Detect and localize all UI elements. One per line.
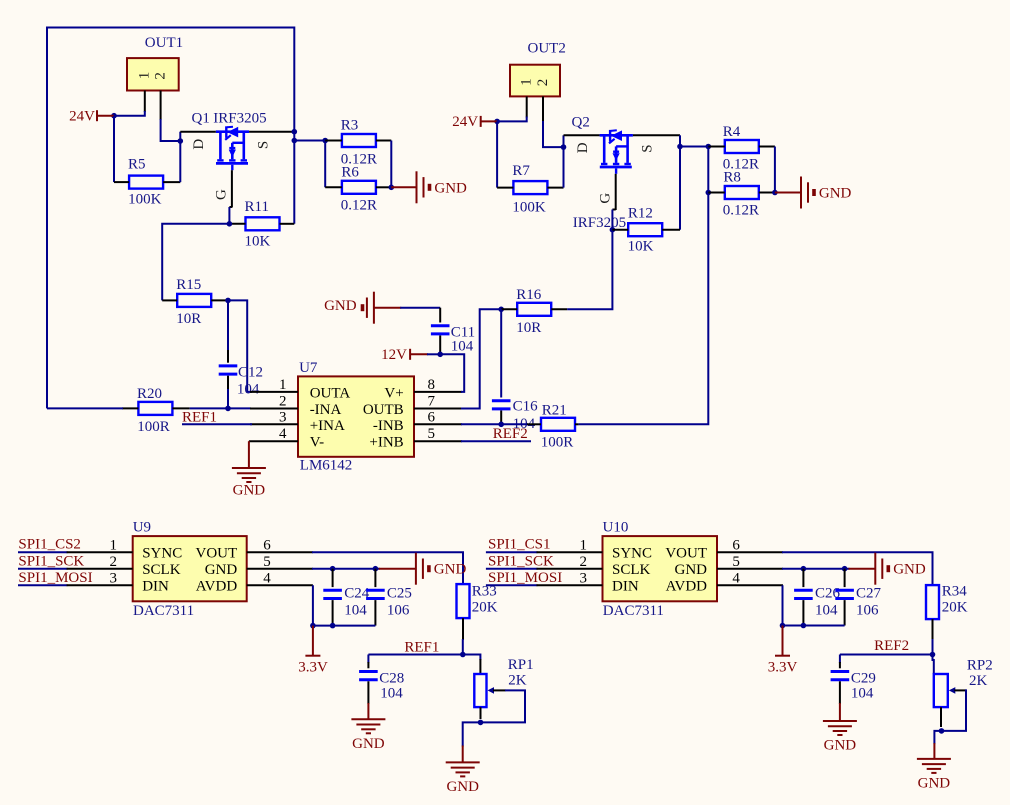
svg-text:104: 104 xyxy=(380,685,403,701)
svg-text:GND: GND xyxy=(324,298,357,314)
Q1 source pin S xyxy=(249,131,294,133)
junction RP2 bottom xyxy=(939,728,945,734)
svg-text:8: 8 xyxy=(428,377,436,393)
transistor Q1 IRF3205 xyxy=(192,110,267,170)
capacitor C29 104 xyxy=(831,655,876,705)
svg-text:-INA: -INA xyxy=(310,402,342,418)
svg-text:IRF3205: IRF3205 xyxy=(213,110,266,126)
wire R15 node down to C12 xyxy=(227,300,229,351)
svg-text:C12: C12 xyxy=(238,365,263,381)
junction gate node B xyxy=(610,227,616,233)
wire -INB pin6 to R21 xyxy=(461,423,528,425)
resistor R5 100K xyxy=(128,157,163,208)
capacitor C28 104 xyxy=(359,655,404,705)
svg-text:1: 1 xyxy=(137,72,153,80)
junction C25 top xyxy=(373,566,379,572)
junction D node B xyxy=(561,144,567,150)
wire split down to R6 xyxy=(324,141,326,188)
svg-text:104: 104 xyxy=(344,603,367,619)
power port 24V (left) xyxy=(97,115,114,117)
svg-text:VOUT: VOUT xyxy=(196,546,238,562)
OUT1 pin 2 xyxy=(160,91,162,121)
wire AVDD pin4 to 3.3V node B xyxy=(783,585,845,625)
svg-text:R8: R8 xyxy=(723,169,741,185)
wire S branch to R3/R6 split xyxy=(294,140,325,142)
svg-text:C29: C29 xyxy=(851,671,876,687)
svg-text:+INA: +INA xyxy=(310,418,345,434)
svg-text:GND: GND xyxy=(205,562,238,578)
svg-text:104: 104 xyxy=(851,685,874,701)
U9 pin 5 GND xyxy=(247,568,313,570)
junction 3.3V node xyxy=(310,623,316,629)
svg-text:C24: C24 xyxy=(344,585,370,601)
wire 24V node down to R5 xyxy=(113,116,115,182)
ground GND (R4/R8 sense) xyxy=(775,192,801,194)
U10 pin 2 SCLK xyxy=(537,568,603,570)
junction D node xyxy=(178,138,184,144)
R12 pins xyxy=(612,229,628,231)
resistor R21 100R xyxy=(541,403,575,451)
wire R20 right to U7 pin2 xyxy=(190,407,251,409)
svg-text:DIN: DIN xyxy=(612,579,639,595)
svg-text:U9: U9 xyxy=(133,519,151,535)
svg-text:104: 104 xyxy=(815,603,838,619)
svg-text:G: G xyxy=(597,193,613,204)
Q2 source pin S xyxy=(633,134,680,136)
wire output feedback loop OUT1 to R20 xyxy=(47,28,294,409)
svg-text:SPI1_MOSI: SPI1_MOSI xyxy=(18,570,92,586)
svg-text:20K: 20K xyxy=(472,599,498,615)
wire gate node to R15 xyxy=(162,224,229,301)
IC U10 DAC7311 xyxy=(603,519,718,619)
svg-text:R21: R21 xyxy=(542,403,567,419)
connector OUT1 xyxy=(127,35,183,90)
svg-text:R15: R15 xyxy=(176,277,201,293)
wire GND pin5 to caps xyxy=(312,568,380,570)
wire R5 right up to D node xyxy=(179,132,181,182)
svg-text:GND: GND xyxy=(819,186,852,202)
svg-text:OUT2: OUT2 xyxy=(528,41,566,57)
Q2 gate pin G xyxy=(615,174,617,210)
svg-text:6: 6 xyxy=(732,537,740,553)
U7 pin 3 +INA xyxy=(250,423,298,425)
junction S branch xyxy=(292,138,298,144)
junction R16 left / C16 top xyxy=(498,307,504,313)
R7 pins xyxy=(497,187,513,189)
wire 24V node down to R7 xyxy=(496,121,498,187)
ground GND (RP2) xyxy=(933,743,935,759)
svg-text:OUTB: OUTB xyxy=(363,402,404,418)
wire SPI1_CS1 xyxy=(486,551,538,553)
net REF1 wire xyxy=(368,654,462,656)
wire 12V node to V+ pin8 xyxy=(427,353,440,355)
svg-text:REF2: REF2 xyxy=(874,638,909,654)
wire RP1 bottom to GND xyxy=(463,722,481,746)
wire S branch to R4/R8 node xyxy=(680,146,708,148)
svg-text:0.12R: 0.12R xyxy=(723,203,759,219)
R3 pins xyxy=(325,140,342,142)
U7 pin 5 +INB xyxy=(414,440,462,442)
wire OUT2 pin1 to 24V node xyxy=(497,117,527,122)
U9 pin 2 SCLK xyxy=(67,568,133,570)
junction C27 top xyxy=(842,566,848,572)
wire SPI1_SCK B xyxy=(486,568,538,570)
resistor R20 100R xyxy=(137,386,172,435)
U10 pin 4 AVDD xyxy=(717,584,783,586)
resistor R3 0.12R xyxy=(341,118,377,168)
resistor R11 10K xyxy=(245,199,280,250)
RP2 bottom pin xyxy=(940,707,942,727)
svg-text:R12: R12 xyxy=(628,205,653,221)
junction R8 left xyxy=(706,190,712,196)
svg-text:SYNC: SYNC xyxy=(142,546,182,562)
wire RP1 wiper to bottom xyxy=(481,690,526,722)
U7 pin 8 V+ xyxy=(414,391,462,393)
wire OUT1 pin1 to 24V node xyxy=(114,111,145,116)
wire RP2 wiper to bottom xyxy=(942,690,967,731)
potentiometer RP2 2K xyxy=(933,655,993,708)
U9 pin 6 VOUT xyxy=(247,551,313,553)
svg-text:DAC7311: DAC7311 xyxy=(133,603,194,619)
junction gate node xyxy=(227,221,233,227)
svg-text:R11: R11 xyxy=(245,199,269,215)
svg-text:12V: 12V xyxy=(381,347,407,363)
R4 pins xyxy=(708,146,725,148)
svg-text:3: 3 xyxy=(110,570,118,586)
transistor Q2 IRF3205 xyxy=(572,114,633,231)
U7 pin 4 V- xyxy=(249,440,298,442)
svg-text:100K: 100K xyxy=(512,199,546,215)
svg-text:VOUT: VOUT xyxy=(665,546,707,562)
wire R7 right up to D node B xyxy=(563,135,565,187)
power port 3.3V (right) xyxy=(782,626,784,656)
svg-text:R16: R16 xyxy=(516,287,542,303)
OUT1 pin 1 xyxy=(144,91,146,113)
svg-text:GND: GND xyxy=(434,562,467,578)
resistor R4 0.12R xyxy=(723,124,759,173)
svg-text:10R: 10R xyxy=(516,320,541,336)
wire R16 right to Q2 gate node xyxy=(567,230,612,310)
svg-text:U7: U7 xyxy=(299,360,318,376)
svg-text:3: 3 xyxy=(580,570,588,586)
svg-text:C27: C27 xyxy=(856,585,882,601)
power port 24V (right) xyxy=(481,120,497,122)
wire source drop B xyxy=(679,135,681,229)
ground GND (U10 pin5) xyxy=(849,568,876,570)
svg-text:AVDD: AVDD xyxy=(196,579,238,595)
svg-text:S: S xyxy=(256,141,272,149)
power port 12V xyxy=(410,353,428,355)
wire SPI1_SCK xyxy=(18,568,68,570)
svg-text:V-: V- xyxy=(310,435,324,451)
R33 bottom pin xyxy=(462,618,464,640)
OUT2 pin 1 xyxy=(526,96,528,117)
junction 24V node xyxy=(111,113,117,119)
wire SPI1_MOSI xyxy=(18,584,68,586)
IC U9 DAC7311 xyxy=(133,519,247,619)
U7 pin 1 OUTA xyxy=(250,391,298,393)
svg-text:24V: 24V xyxy=(452,114,478,130)
svg-text:GND: GND xyxy=(233,483,266,499)
svg-text:GND: GND xyxy=(675,562,708,578)
wire SPI1_MOSI B xyxy=(486,584,538,586)
U10 pin 6 VOUT xyxy=(717,551,783,553)
svg-text:1: 1 xyxy=(110,537,118,553)
svg-text:SCLK: SCLK xyxy=(612,562,651,578)
ground GND on U7 pin4 xyxy=(248,441,250,468)
wire Q2 gate down to gate node B xyxy=(611,210,613,230)
connector OUT2 xyxy=(510,41,566,97)
Q1 gate pin G xyxy=(231,170,233,207)
op-amp U7 LM6142 xyxy=(298,360,414,474)
wire R4 right down to R8 right xyxy=(774,147,776,193)
R6 pins xyxy=(325,186,342,188)
OUT2 pin 2 xyxy=(542,96,544,122)
R8 pins xyxy=(708,192,725,194)
svg-text:OUTA: OUTA xyxy=(310,385,351,401)
U9 pin 1 SYNC xyxy=(67,551,133,553)
junction R8 right xyxy=(772,190,778,196)
svg-text:REF1: REF1 xyxy=(182,409,217,425)
svg-text:OUT1: OUT1 xyxy=(145,35,183,51)
svg-text:5: 5 xyxy=(428,426,436,442)
U9 pin 3 DIN xyxy=(67,584,133,586)
svg-text:RP2: RP2 xyxy=(967,657,993,673)
svg-text:100R: 100R xyxy=(541,434,574,450)
R15 pins xyxy=(162,299,177,301)
ground GND (RP1) xyxy=(462,746,464,763)
Q2 drain pin D xyxy=(564,134,600,136)
ground GND (R3/R6 sense) xyxy=(391,186,416,188)
svg-text:1: 1 xyxy=(279,377,287,393)
wire OUTB pin7 to R16 xyxy=(461,309,501,408)
svg-text:SPI1_CS1: SPI1_CS1 xyxy=(488,537,551,553)
svg-text:2: 2 xyxy=(153,72,169,80)
svg-text:5: 5 xyxy=(263,554,271,570)
wire AVDD pin4 to 3.3V node xyxy=(313,585,376,625)
junction C26 top xyxy=(801,566,807,572)
RP1 bottom pin xyxy=(480,707,482,719)
junction C26 bottom xyxy=(801,623,807,629)
wire source drop (S vertical) xyxy=(293,132,295,224)
capacitor C24 104 xyxy=(323,569,369,626)
svg-text:GND: GND xyxy=(824,738,857,754)
svg-text:SPI1_CS2: SPI1_CS2 xyxy=(18,537,81,553)
svg-text:2K: 2K xyxy=(969,673,988,689)
svg-text:GND: GND xyxy=(918,776,951,792)
svg-text:GND: GND xyxy=(352,736,385,752)
svg-text:10K: 10K xyxy=(245,234,271,250)
svg-text:R7: R7 xyxy=(512,163,530,179)
wire loop to R20 left xyxy=(47,407,123,409)
Q1 drain pin D xyxy=(180,131,216,133)
power port 3.3V (left) xyxy=(312,626,314,655)
wire C12 bottom to -INA node xyxy=(227,389,229,408)
U10 pin 3 DIN xyxy=(537,584,603,586)
junction REF1 node xyxy=(460,652,466,658)
capacitor C16 104 xyxy=(492,309,538,432)
wire GND pin5 to caps B xyxy=(782,568,850,570)
svg-text:Q1: Q1 xyxy=(192,110,210,126)
svg-text:24V: 24V xyxy=(69,109,95,125)
svg-text:100K: 100K xyxy=(128,192,162,208)
svg-text:D: D xyxy=(575,142,591,153)
junction REF2 node xyxy=(930,652,936,658)
resistor R6 0.12R xyxy=(341,164,377,213)
svg-text:106: 106 xyxy=(856,603,879,619)
svg-text:LM6142: LM6142 xyxy=(300,458,353,474)
svg-text:DAC7311: DAC7311 xyxy=(603,603,664,619)
svg-text:104: 104 xyxy=(237,382,260,398)
junction R15 right / C12 top xyxy=(225,298,231,304)
ground GND (C28) xyxy=(367,703,369,719)
svg-text:1: 1 xyxy=(519,78,535,86)
svg-text:10R: 10R xyxy=(176,311,201,327)
wire OUT2 pin2 to D node B xyxy=(543,121,564,147)
svg-text:REF2: REF2 xyxy=(493,426,528,442)
wire R21 right to output node B xyxy=(579,147,709,425)
net REF2 wire xyxy=(840,654,933,656)
junction R6 right xyxy=(389,185,395,191)
R16 pins xyxy=(501,308,517,310)
svg-text:100R: 100R xyxy=(137,419,170,435)
svg-text:AVDD: AVDD xyxy=(666,579,708,595)
junction 12V node xyxy=(437,352,443,358)
svg-text:104: 104 xyxy=(451,338,474,354)
capacitor C12 104 xyxy=(219,350,263,398)
junction S lead xyxy=(292,129,298,135)
ground GND (decoupling, mirrored) xyxy=(373,292,375,324)
wire Q1 gate down to gate node xyxy=(228,207,230,224)
svg-text:S: S xyxy=(639,144,655,152)
svg-text:SPI1_SCK: SPI1_SCK xyxy=(18,553,84,569)
svg-text:6: 6 xyxy=(428,409,436,425)
svg-text:2: 2 xyxy=(279,394,287,410)
capacitor C26 104 xyxy=(794,569,840,626)
R21 pins xyxy=(527,423,541,425)
svg-text:R6: R6 xyxy=(341,164,359,180)
svg-text:7: 7 xyxy=(428,394,436,410)
svg-text:SPI1_MOSI: SPI1_MOSI xyxy=(488,570,562,586)
ground GND (C29) xyxy=(839,703,841,721)
resistor R16 10R xyxy=(516,287,551,336)
U7 pin 7 OUTB xyxy=(414,408,462,410)
wire SPI1_CS2 xyxy=(18,551,68,553)
R11 pins xyxy=(229,223,245,225)
svg-text:2K: 2K xyxy=(508,672,527,688)
svg-text:SCLK: SCLK xyxy=(142,562,181,578)
svg-text:R20: R20 xyxy=(137,386,162,402)
svg-text:4: 4 xyxy=(279,426,287,442)
svg-text:2: 2 xyxy=(110,554,118,570)
svg-text:2: 2 xyxy=(535,79,551,87)
wire RP2 bottom to GND xyxy=(934,731,941,744)
svg-text:C28: C28 xyxy=(379,671,404,687)
resistor R33 20K xyxy=(457,584,498,619)
R20 pins xyxy=(122,407,138,409)
svg-text:RP1: RP1 xyxy=(508,657,534,673)
svg-text:SYNC: SYNC xyxy=(612,546,652,562)
U10 pin 5 GND xyxy=(717,568,783,570)
svg-text:3.3V: 3.3V xyxy=(298,659,328,675)
svg-text:C25: C25 xyxy=(387,585,412,601)
svg-text:+INB: +INB xyxy=(369,435,403,451)
capacitor C25 106 xyxy=(366,569,412,626)
junction C16 bottom / -INB xyxy=(498,422,504,428)
junction C24 bottom xyxy=(330,623,336,629)
capacitor C27 106 xyxy=(835,569,881,626)
svg-text:C16: C16 xyxy=(513,399,539,415)
potentiometer RP1 2K xyxy=(463,655,534,708)
U7 pin 6 -INB xyxy=(414,423,462,425)
junction S branch B xyxy=(677,144,683,150)
wire VOUT to R34 xyxy=(782,552,933,585)
junction 24V node B xyxy=(494,119,500,125)
svg-text:R3: R3 xyxy=(341,118,359,134)
resistor R15 10R xyxy=(176,277,211,327)
junction RP1 bottom xyxy=(478,720,484,726)
wire REF2 stub xyxy=(461,440,531,442)
svg-text:3.3V: 3.3V xyxy=(768,659,798,675)
capacitor C11 104 xyxy=(431,308,475,355)
svg-text:4: 4 xyxy=(732,570,740,586)
wire GND to C11 top xyxy=(374,307,401,309)
svg-text:4: 4 xyxy=(263,570,271,586)
svg-text:5: 5 xyxy=(732,554,740,570)
U10 pin 1 SYNC xyxy=(537,551,603,553)
R34 bottom pin xyxy=(932,619,934,640)
svg-text:-INB: -INB xyxy=(373,418,404,434)
R5 pins xyxy=(114,181,129,183)
U9 pin 4 AVDD xyxy=(247,584,313,586)
junction -INA node xyxy=(225,406,231,412)
resistor R7 100K xyxy=(512,163,547,215)
resistor R34 20K xyxy=(926,584,968,620)
svg-text:R34: R34 xyxy=(942,584,968,600)
svg-text:0.12R: 0.12R xyxy=(341,197,377,213)
svg-text:20K: 20K xyxy=(942,599,968,615)
resistor R12 10K xyxy=(628,205,663,254)
svg-text:G: G xyxy=(214,189,230,200)
svg-text:DIN: DIN xyxy=(142,579,169,595)
svg-text:REF1: REF1 xyxy=(404,639,439,655)
svg-text:V+: V+ xyxy=(384,385,403,401)
svg-text:GND: GND xyxy=(434,180,467,196)
svg-text:GND: GND xyxy=(893,562,926,578)
svg-text:GND: GND xyxy=(446,779,479,795)
svg-text:U10: U10 xyxy=(603,519,629,535)
junction 3.3V node B xyxy=(780,623,786,629)
svg-text:R4: R4 xyxy=(723,124,741,140)
wire OUT1 pin2 to D node xyxy=(161,119,181,141)
U7 pin 2 -INA xyxy=(250,408,298,410)
wire R3 right down to R6 right xyxy=(390,141,392,188)
svg-text:106: 106 xyxy=(387,603,410,619)
wire REF1 stub xyxy=(182,423,252,425)
svg-text:1: 1 xyxy=(580,537,588,553)
svg-text:Q2: Q2 xyxy=(572,114,590,130)
junction R3/R6 split xyxy=(322,138,328,144)
wire R15 node to OUTA pin1 xyxy=(228,300,252,392)
ground GND (U9 pin5) xyxy=(379,568,416,570)
svg-text:3: 3 xyxy=(279,409,287,425)
resistor R8 0.12R xyxy=(723,169,759,218)
junction C24 top xyxy=(330,566,336,572)
svg-text:6: 6 xyxy=(263,537,271,553)
svg-text:D: D xyxy=(191,139,207,150)
svg-text:2: 2 xyxy=(580,554,588,570)
junction R4/R8 node xyxy=(706,144,712,150)
